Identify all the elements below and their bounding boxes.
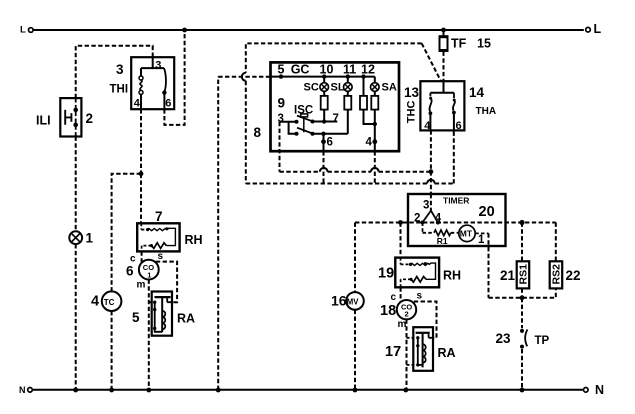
resistor branch 12 right [371, 91, 378, 151]
resistor SC [321, 91, 328, 121]
svg-text:4: 4 [134, 98, 141, 110]
svg-text:2: 2 [86, 111, 94, 126]
wire bus to RH 19 [400, 223, 402, 258]
node junction bus branch 12 [361, 74, 365, 78]
node junction THI pin4 branch [139, 171, 144, 176]
svg-text:TP: TP [535, 335, 550, 347]
switch timer contact [421, 194, 440, 225]
wire TP to N rail [521, 349, 523, 390]
node L terminal right [586, 22, 602, 36]
motor CO 18 compressor [380, 291, 423, 331]
node junction GC pin6 branch [321, 132, 325, 136]
node pin 5 dot [279, 74, 283, 78]
svg-text:3: 3 [155, 59, 161, 71]
lamp SC pilot [304, 77, 329, 94]
svg-text:17: 17 [385, 344, 401, 360]
resistor branch 12 left [360, 77, 375, 124]
node N terminal left [19, 385, 32, 395]
lamp SA pilot [371, 77, 397, 94]
resistor RS2 22 [550, 223, 581, 289]
svg-text:m: m [137, 280, 146, 291]
svg-text:2: 2 [405, 310, 409, 319]
svg-text:L: L [594, 22, 602, 36]
svg-text:1: 1 [478, 234, 485, 246]
motor TC compressor fan 4 [91, 291, 121, 311]
motor MV fan 16 [331, 292, 364, 310]
svg-text:8: 8 [254, 125, 262, 140]
wire CO 6 s-terminal to RA 5 [156, 262, 177, 303]
svg-text:RS1: RS1 [518, 264, 530, 285]
svg-text:MT: MT [460, 229, 473, 239]
svg-text:5 GC: 5 GC [278, 63, 310, 77]
svg-text:7: 7 [333, 113, 339, 125]
wire L supply rail top [33, 29, 584, 31]
node junction N rail x76 [73, 388, 78, 393]
switch ISC 9 [278, 96, 339, 136]
heater RH 19 [378, 258, 461, 288]
svg-text:c: c [391, 292, 397, 303]
wire sensor diagonal to THC [422, 43, 441, 81]
wire RS junction to TP [521, 298, 523, 329]
wire bus to MV [354, 223, 356, 293]
svg-text:19: 19 [378, 266, 394, 282]
resistor R1 and motor MT timer [423, 223, 489, 246]
svg-text:3: 3 [423, 200, 429, 212]
svg-text:5: 5 [132, 310, 140, 325]
fuse TF 15 [439, 30, 491, 51]
svg-text:TIMER: TIMER [443, 196, 469, 206]
thermostat THC THA 13 14 [404, 81, 496, 132]
svg-text:12: 12 [361, 63, 375, 77]
svg-text:14: 14 [469, 85, 485, 100]
svg-text:s: s [417, 291, 423, 302]
wire GC internal bus pin5 [271, 76, 375, 78]
wire ILI to lamp 1 [75, 137, 77, 232]
wire lamp 1 to N rail [75, 244, 77, 390]
svg-text:RA: RA [438, 346, 456, 360]
wire branch to TC [112, 174, 141, 292]
svg-text:22: 22 [566, 268, 581, 283]
svg-text:s: s [158, 251, 164, 262]
node junction bus lamp SC [322, 74, 326, 78]
wire CO 18 m-terminal to N rail [406, 319, 408, 390]
svg-text:6: 6 [327, 137, 333, 149]
wire timer pin1 to RS bottoms [489, 233, 556, 297]
svg-text:11: 11 [343, 63, 356, 77]
node junction N rail x148 [146, 388, 151, 393]
svg-text:m: m [398, 319, 407, 330]
svg-text:THI: THI [110, 84, 129, 96]
wire RH 7 to CO 6 c-terminal [141, 251, 143, 262]
svg-text:20: 20 [479, 204, 495, 220]
node junction N rail x522 [520, 388, 525, 393]
svg-text:4: 4 [91, 294, 99, 310]
svg-text:N: N [595, 383, 604, 397]
node junction bus RS pair [519, 220, 524, 225]
svg-text:18: 18 [380, 303, 396, 319]
svg-text:L: L [20, 25, 26, 36]
svg-text:15: 15 [477, 37, 491, 51]
node junction bus lamp SL [346, 74, 350, 78]
svg-text:3: 3 [278, 113, 284, 125]
svg-text:RS2: RS2 [551, 264, 563, 285]
node GC pin 6 [321, 134, 333, 151]
wire CO 18 s-terminal to RA 17 [414, 302, 437, 338]
svg-text:SA: SA [382, 82, 397, 94]
resistor SL [344, 91, 351, 134]
wire defrost net THA pin6 loop [242, 43, 454, 183]
wire GC pin4 to defrost net [374, 151, 376, 183]
svg-text:RA: RA [177, 312, 195, 326]
node junction bus RH19 [398, 220, 403, 225]
wire CO 6 m-terminal to N rail [148, 280, 150, 391]
node junction RS1 bottom TP [520, 295, 525, 300]
lamp 1 interior light [69, 231, 93, 246]
switch ILI lamp door switch 2 [36, 98, 93, 136]
wire junction to RH 7 [140, 174, 142, 224]
relay RA 17 start relay [385, 327, 456, 371]
svg-text:RH: RH [443, 269, 461, 283]
svg-text:SL: SL [331, 82, 345, 94]
svg-text:SC: SC [304, 82, 319, 94]
wire TF to THC common [443, 52, 445, 81]
wire ISC upper pole to pin7 stub [313, 119, 338, 123]
wire GC pin5 feed from N rail [218, 77, 270, 390]
wire MV to N rail [354, 310, 356, 390]
heater RH 7 defrost heater [137, 209, 202, 251]
motor CO 6 compressor [126, 251, 164, 291]
svg-text:R1: R1 [437, 236, 448, 246]
node junction N rail x355 [353, 388, 358, 393]
switch TP 23 [496, 329, 550, 349]
svg-text:ILI: ILI [36, 114, 51, 128]
wire main bus MV RH19 timer RS [355, 222, 556, 224]
svg-text:10: 10 [320, 63, 334, 77]
node junction N rail x406 [403, 388, 408, 393]
control box GC 8 [254, 62, 400, 151]
svg-text:6: 6 [456, 120, 462, 132]
node junction N rail x111 [109, 388, 114, 393]
lamp SL pilot [331, 77, 353, 94]
node GC pin 4 [366, 137, 378, 149]
wire ILI top to THI pin3 [76, 46, 153, 98]
svg-text:1: 1 [86, 231, 94, 246]
svg-text:6: 6 [126, 264, 134, 279]
wire THI pin4 down [140, 109, 142, 174]
wire THI pin6 to L rail [164, 30, 184, 125]
svg-text:TC: TC [104, 298, 115, 307]
svg-text:13: 13 [404, 85, 420, 100]
svg-text:MV: MV [347, 297, 359, 306]
svg-text:23: 23 [496, 331, 512, 346]
thermostat THI 3 [110, 57, 175, 109]
svg-text:THA: THA [476, 106, 497, 117]
svg-text:1: 1 [147, 270, 151, 279]
svg-text:RH: RH [185, 233, 203, 247]
wire N return rail bottom [32, 389, 583, 391]
wire THC pin4 to timer pin3 [430, 130, 432, 194]
wire GC pin3 to THC pin4 and timer pin3 [280, 122, 431, 172]
svg-text:21: 21 [500, 268, 516, 283]
relay RA 5 start relay [132, 292, 195, 336]
wire GC pin6 to defrost net [323, 151, 325, 183]
resistor RS1 21 [500, 223, 530, 298]
svg-text:TF: TF [451, 37, 467, 51]
wire TC to N rail [111, 311, 113, 390]
svg-text:6: 6 [165, 98, 171, 110]
node junction N rail x218 [216, 388, 221, 393]
svg-text:THC: THC [405, 101, 417, 124]
svg-text:4: 4 [424, 120, 431, 132]
svg-text:16: 16 [331, 293, 347, 309]
node junction GC pin3 net to THC pin4 line [429, 169, 434, 174]
node N terminal right [584, 383, 605, 397]
svg-text:7: 7 [155, 209, 163, 224]
svg-text:N: N [19, 385, 26, 395]
wire RH 19 to CO 18 c-terminal [400, 287, 402, 302]
wire ISC lower pole to SL resistor [313, 133, 348, 135]
svg-text:3: 3 [116, 62, 124, 77]
svg-text:9: 9 [278, 96, 286, 111]
svg-text:4: 4 [366, 137, 373, 149]
node junction on L rail for THI pin6 [182, 28, 187, 33]
timer box 20 [408, 194, 506, 246]
node L terminal left [20, 25, 33, 36]
node junction on L rail for TF [441, 28, 446, 33]
